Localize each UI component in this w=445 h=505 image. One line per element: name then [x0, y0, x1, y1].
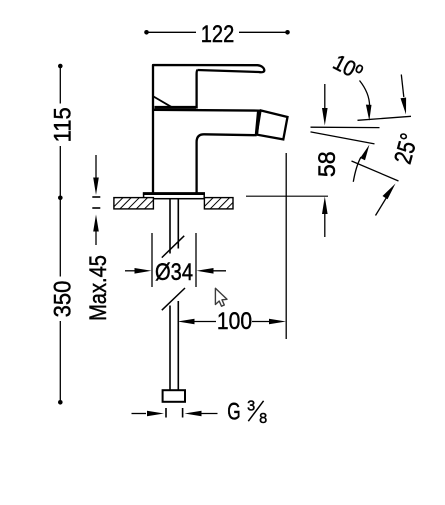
dimension 122 top: line left segment	[146, 31, 196, 33]
lever bottom diagonal	[154, 97, 173, 108]
dimension 122: left dot	[144, 30, 149, 35]
diameter 34 right arrow	[197, 268, 214, 274]
svg-text:G: G	[227, 399, 240, 425]
svg-text:8: 8	[259, 411, 267, 427]
left dimension line: segment bottom (350 span)	[59, 198, 61, 277]
upper right arrow	[401, 75, 404, 98]
G3/8 tick left	[165, 408, 167, 418]
svg-text:100: 100	[217, 307, 252, 335]
spout joint thick line	[256, 110, 258, 136]
faucet lever outline	[153, 65, 264, 193]
spout tip square	[257, 110, 288, 139]
svg-text:350: 350	[48, 281, 75, 318]
10 degree leader arc with arrow	[360, 81, 370, 107]
pipe break slash 1	[162, 236, 184, 258]
left dimension line: segment top (115 span)	[59, 66, 61, 104]
G3/8 tick right	[182, 408, 184, 418]
spout underside and body right edge	[197, 134, 257, 193]
100 vertical extension line	[285, 153, 287, 339]
svg-text:Max.45: Max.45	[84, 255, 111, 321]
G3/8 connector	[163, 390, 185, 402]
base plate thick top edge	[143, 192, 205, 195]
diameter 34 extension tick left	[151, 233, 153, 287]
left dimension: middle dot	[58, 196, 63, 201]
diameter 34 extension tick right	[195, 233, 197, 287]
G3/8 dimension left arrow	[132, 413, 147, 415]
100 dimension right arrow	[252, 321, 280, 323]
supply pipe lower segment	[169, 306, 171, 391]
svg-text:Ø34: Ø34	[155, 258, 193, 285]
pipe break slash 2	[162, 288, 185, 310]
countertop hatched right	[204, 198, 233, 209]
lever/body shadow bar	[155, 106, 197, 109]
left dimension: bottom dot	[58, 400, 63, 405]
Max.45 bottom arrow	[93, 215, 99, 232]
Max.45 dimension top arrow	[95, 155, 97, 178]
Max.45 tick bottom	[92, 207, 100, 209]
svg-text:122: 122	[201, 20, 235, 47]
body top / spout top line	[153, 109, 259, 112]
left dimension: top dot	[58, 64, 63, 69]
angle line A	[358, 116, 412, 120]
svg-text:3: 3	[247, 399, 255, 415]
svg-text:115: 115	[48, 107, 75, 142]
Max.45 tick top	[92, 196, 100, 198]
dimension 122 top: line right segment	[239, 31, 288, 33]
G3/8 dimension right arrow	[185, 411, 202, 417]
58 dimension bottom arrow	[322, 197, 328, 215]
lever neck right edge	[195, 74, 197, 109]
G3/8 label: fraction slash	[248, 401, 263, 421]
countertop level extension line	[246, 195, 328, 197]
mouse cursor	[215, 288, 227, 306]
arrow E to line C	[353, 157, 361, 182]
dimension 122: right dot	[285, 30, 290, 35]
base plate	[144, 193, 205, 199]
svg-text:58: 58	[314, 151, 342, 177]
angle line C	[311, 132, 375, 144]
countertop hatched left	[114, 198, 153, 209]
angle line B	[311, 126, 380, 128]
diameter 34 left arrow	[125, 270, 140, 272]
100 dimension left arrow	[178, 319, 195, 325]
arrow F to line D	[376, 195, 389, 216]
58 dimension top arrow	[324, 84, 326, 112]
angle line D	[352, 161, 399, 181]
supply pipe upper segment	[169, 199, 171, 254]
